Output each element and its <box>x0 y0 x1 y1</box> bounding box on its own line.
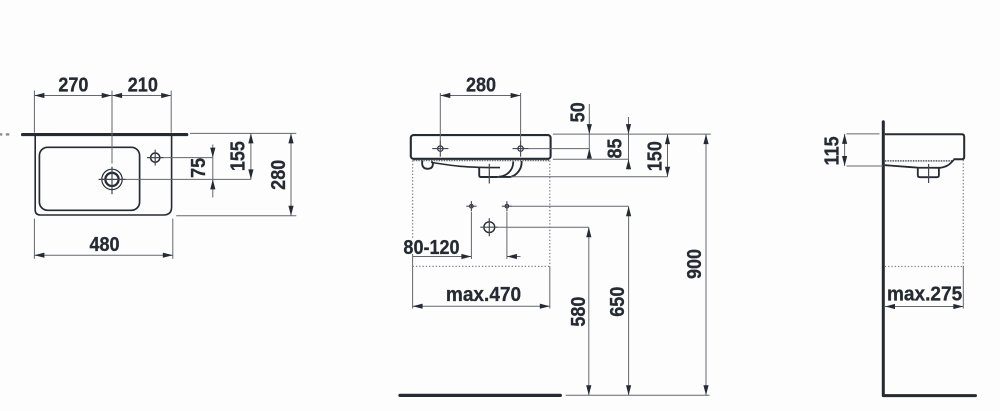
front view: basin body outline <box>411 135 551 159</box>
top view: tap hole circle <box>151 153 160 162</box>
front view: tap hole extension lines <box>440 93 520 141</box>
side view: rim profile <box>885 134 964 159</box>
top view: drain centreline extension <box>111 91 113 164</box>
front view: tap hole leader to 50 <box>529 148 590 150</box>
label 115 <box>821 136 843 165</box>
svg-text:280: 280 <box>268 160 290 190</box>
front view: top edge extension line <box>553 133 711 135</box>
dimension line 50 <box>587 104 592 159</box>
front view: fixing hole leader to 650 <box>512 205 629 207</box>
front view: drain boss <box>479 168 511 177</box>
front view: right fixing hole cross <box>502 201 512 211</box>
label max.470 <box>446 283 521 306</box>
svg-text:max.275: max.275 <box>887 283 962 306</box>
top view: drain inner circle <box>105 173 118 186</box>
dimension line 150 <box>665 134 670 177</box>
top view: tap hole leader line <box>164 157 213 159</box>
svg-text:580: 580 <box>568 297 590 327</box>
front view: overflow pocket <box>422 160 433 168</box>
dimension 270 arrows <box>34 93 111 98</box>
top view: bottom extension lines <box>34 219 172 259</box>
top view: drain crosshair <box>99 167 126 194</box>
dimension line 280 front <box>440 93 520 98</box>
label 280 front <box>466 75 496 97</box>
top view: top-right extension line <box>190 132 296 134</box>
label 280 side <box>268 160 290 190</box>
front view: installation zone left dotted line <box>412 161 414 309</box>
svg-text:max.470: max.470 <box>446 283 521 306</box>
side view: 115 extension lines <box>847 134 884 166</box>
side view: installation zone bottom dotted line <box>885 266 964 268</box>
side view: serrated sealing edge <box>885 160 953 162</box>
label 480 <box>89 234 119 256</box>
top view: extension line left edge <box>33 91 35 133</box>
dimension line max.275 <box>885 304 963 309</box>
label 85 <box>605 138 627 158</box>
top view: tap hole crosshair <box>147 150 164 166</box>
svg-text:900: 900 <box>684 249 706 279</box>
front view: drain centreline <box>488 164 490 184</box>
svg-text:75: 75 <box>188 158 210 178</box>
front view: fixing hole extension lines <box>471 212 507 259</box>
label 210 <box>128 75 158 97</box>
svg-text:650: 650 <box>607 287 629 317</box>
side view: bowl underside profile <box>885 160 954 177</box>
svg-text:270: 270 <box>58 75 88 97</box>
dimension line 480 <box>34 253 172 258</box>
svg-text:280: 280 <box>466 75 496 97</box>
dimension line 900 <box>703 134 708 395</box>
top view: extension line right edge <box>170 91 172 133</box>
label 155 <box>228 141 250 171</box>
dimension line 270/210 <box>34 95 171 97</box>
top view: drain outer circle <box>102 169 122 189</box>
side view: wall and floor (thick lines) <box>883 122 975 396</box>
label 270 <box>58 75 88 97</box>
side view: drain boss centreline <box>928 164 930 183</box>
front view: serrated sealing edge <box>413 159 549 161</box>
label 75 <box>188 158 210 178</box>
front view: outlet leader to 150 <box>511 176 668 178</box>
svg-text:80-120: 80-120 <box>403 237 459 259</box>
label 900 <box>684 249 706 279</box>
front view: installation zone bottom dotted line <box>413 265 550 267</box>
front view: floor extension line <box>566 394 710 396</box>
front view: waste outlet cross <box>480 218 498 236</box>
front view: body bottom extension line <box>553 158 629 160</box>
dimension line 650 <box>626 206 631 395</box>
svg-text:210: 210 <box>128 75 158 97</box>
svg-text:115: 115 <box>821 136 843 165</box>
label 650 <box>607 287 629 317</box>
svg-text:480: 480 <box>89 234 119 256</box>
svg-text:150: 150 <box>644 141 666 171</box>
dimension line 155 <box>248 133 253 179</box>
top view: basin outer outline <box>35 135 171 216</box>
stray wall-line dashes at left margin <box>0 133 9 135</box>
top view: bottom-right extension line <box>176 215 296 217</box>
front view: right tap hole symbol <box>513 141 529 157</box>
front view: bowl underside curve <box>432 163 500 168</box>
label 150 <box>644 141 666 171</box>
dimension line 280 (vertical) <box>288 133 293 215</box>
front view: outlet inner arc <box>499 162 514 177</box>
front view: left tap hole symbol <box>432 141 448 157</box>
top view: inner bowl outline <box>39 147 139 210</box>
label max.275 <box>887 283 962 306</box>
label 580 <box>568 297 590 327</box>
dimension line 80-120 <box>413 254 521 259</box>
front view: left fixing hole cross <box>466 201 476 211</box>
dimension line 115 <box>842 134 847 166</box>
side view: installation zone right dotted line <box>962 160 964 309</box>
svg-text:50: 50 <box>568 102 590 122</box>
top view: drain centre leader line <box>126 178 251 180</box>
dimension 210 arrows <box>112 93 171 98</box>
top view: rear mounting edge (thick line) <box>23 133 187 136</box>
label 50 <box>568 102 590 122</box>
front view: outlet outer arc <box>511 161 522 177</box>
front view: waste cross leader to 580 <box>498 226 589 228</box>
label 80-120 <box>403 237 459 259</box>
dimension line 85 <box>626 117 631 169</box>
front view: floor line <box>400 394 560 397</box>
front view: installation zone right dotted line <box>549 161 551 309</box>
dimension line max.470 <box>413 304 550 309</box>
dimension line 580 <box>586 227 591 395</box>
svg-text:85: 85 <box>605 138 627 158</box>
svg-text:155: 155 <box>228 141 250 171</box>
dimension line 75 <box>210 145 215 198</box>
